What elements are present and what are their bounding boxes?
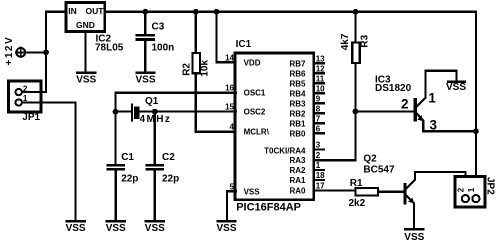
svg-text:RB1: RB1 xyxy=(289,119,306,128)
node R3/RA3/DS1820 junction xyxy=(353,109,359,115)
svg-text:2: 2 xyxy=(316,151,321,160)
ground VSS (regulator) xyxy=(76,73,96,86)
pin 17 RA0 xyxy=(289,182,325,196)
node rail/R3 junction xyxy=(353,9,359,15)
wire RA3 to R3/DS1820 node xyxy=(315,112,356,161)
node OSC1/crystal junction xyxy=(113,109,119,115)
connector JP2 xyxy=(455,177,485,208)
pin 11 RB5 xyxy=(289,74,324,88)
svg-text:4k7: 4k7 xyxy=(340,33,351,50)
svg-text:3: 3 xyxy=(316,141,321,150)
svg-text:4: 4 xyxy=(230,123,235,132)
pin 14 VDD xyxy=(225,53,261,67)
node rail/VDD junction xyxy=(214,9,220,15)
resistor R3 xyxy=(352,12,360,112)
wire regulator GND stub xyxy=(84,32,86,72)
svg-text:17: 17 xyxy=(316,182,325,191)
svg-text:2: 2 xyxy=(457,187,466,192)
pin 5 VSS xyxy=(230,182,261,196)
capacitor C1 xyxy=(108,165,124,220)
pin 9 RB3 xyxy=(289,94,323,108)
svg-text:RB0: RB0 xyxy=(289,129,306,138)
svg-text:VSS: VSS xyxy=(244,187,261,196)
svg-text:7: 7 xyxy=(316,114,321,123)
svg-text:R2: R2 xyxy=(181,63,192,76)
svg-text:RA2: RA2 xyxy=(289,166,306,175)
pin 4 MCLR xyxy=(230,123,270,137)
svg-text:18: 18 xyxy=(316,171,325,180)
svg-text:IC1: IC1 xyxy=(236,39,252,50)
node rail/R2 junction xyxy=(193,9,199,15)
wire DS1820 data xyxy=(356,110,414,112)
svg-text:5: 5 xyxy=(230,182,235,191)
ground VSS (C2) xyxy=(145,221,165,234)
svg-text:MCLR\: MCLR\ xyxy=(244,128,270,137)
svg-text:12: 12 xyxy=(316,64,325,73)
svg-text:8: 8 xyxy=(316,104,321,113)
node +12V junction xyxy=(43,50,49,56)
svg-text:1: 1 xyxy=(316,161,321,170)
wire OSC1 net xyxy=(116,93,237,164)
svg-text:6: 6 xyxy=(316,124,321,133)
svg-text:15: 15 xyxy=(225,103,234,112)
ground VSS (C3) xyxy=(135,73,155,86)
svg-text:R3: R3 xyxy=(359,34,370,47)
svg-text:2: 2 xyxy=(401,97,409,112)
svg-text:3: 3 xyxy=(430,118,438,133)
ground VSS (Q2) xyxy=(404,229,424,243)
svg-text:BC547: BC547 xyxy=(363,165,395,176)
wire +12V input to regulator IN xyxy=(46,11,65,13)
svg-text:OUT: OUT xyxy=(86,6,105,16)
wire JP1 pin 2 to +12V xyxy=(23,91,46,93)
wire +12V vertical to JP1 pin 2 xyxy=(45,12,47,92)
svg-text:PIC16F84AP: PIC16F84AP xyxy=(236,202,301,214)
capacitor C2 xyxy=(147,112,163,221)
svg-text:IN: IN xyxy=(68,6,77,16)
svg-text:GND: GND xyxy=(76,20,95,30)
svg-text:+12V: +12V xyxy=(4,36,15,66)
svg-text:22p: 22p xyxy=(162,173,179,184)
svg-text:11: 11 xyxy=(316,74,325,83)
svg-text:Q2: Q2 xyxy=(363,154,377,165)
node DS1820 pin3 / rail junction xyxy=(473,128,479,134)
svg-text:JP1: JP1 xyxy=(22,112,40,123)
svg-text:22p: 22p xyxy=(121,173,138,184)
wire JP1 pin 1 to ground xyxy=(23,103,76,221)
ground VSS (JP1) xyxy=(66,221,86,234)
power symbol +12V xyxy=(16,48,46,58)
svg-text:C2: C2 xyxy=(162,152,175,163)
svg-text:VSS: VSS xyxy=(145,223,165,234)
node rail/C3 junction xyxy=(142,9,148,15)
transistor Q2 BC547 xyxy=(405,172,465,228)
svg-text:16: 16 xyxy=(225,84,234,93)
node OSC2/C2 junction xyxy=(152,109,158,115)
pin 12 RB6 xyxy=(289,64,325,78)
pin 3 T0CKI/RA4 xyxy=(264,141,324,156)
svg-text:10: 10 xyxy=(316,84,325,93)
svg-text:RB6: RB6 xyxy=(289,69,306,78)
svg-text:RA3: RA3 xyxy=(289,156,306,165)
svg-text:C3: C3 xyxy=(152,22,165,33)
svg-text:VSS: VSS xyxy=(216,223,236,234)
resistor R2 xyxy=(192,12,236,132)
ground VSS (DS1820) xyxy=(446,82,466,93)
svg-text:100n: 100n xyxy=(152,42,175,53)
svg-text:Q1: Q1 xyxy=(145,96,159,107)
ground VSS (IC1) xyxy=(216,221,236,234)
svg-text:RB5: RB5 xyxy=(289,79,306,88)
svg-text:VSS: VSS xyxy=(66,223,86,234)
svg-text:VDD: VDD xyxy=(244,58,261,67)
pin 1 RA2 xyxy=(289,161,323,175)
svg-text:1: 1 xyxy=(428,90,436,105)
capacitor C3 xyxy=(137,12,154,72)
connector JP1 xyxy=(9,81,42,112)
op IC1 PIC16F84AP body xyxy=(235,53,314,200)
ground VSS (C1) xyxy=(106,221,126,234)
crystal Q1 xyxy=(116,104,237,120)
wire VDD xyxy=(216,12,236,63)
svg-text:78L05: 78L05 xyxy=(95,43,124,54)
svg-text:13: 13 xyxy=(316,54,325,63)
wire RA0 to R1 xyxy=(315,190,355,192)
svg-text:RB3: RB3 xyxy=(289,99,306,108)
wire 5V rail (regulator OUT to right edge, down to JP2 pin 1) xyxy=(105,12,476,195)
pin 7 RB1 xyxy=(289,114,323,128)
svg-text:10k: 10k xyxy=(200,60,211,77)
wire VSS pin 5 to ground xyxy=(227,191,236,220)
pin 18 RA1 xyxy=(289,171,325,185)
svg-text:VSS: VSS xyxy=(135,74,155,85)
svg-text:OSC1: OSC1 xyxy=(244,89,266,98)
pin 15 OSC2 xyxy=(225,103,266,117)
pin 6 RB0 xyxy=(289,124,323,138)
svg-text:9: 9 xyxy=(316,94,321,103)
svg-text:RB4: RB4 xyxy=(289,89,306,98)
svg-text:VSS: VSS xyxy=(404,232,424,243)
svg-text:R1: R1 xyxy=(350,178,363,189)
svg-text:RA0: RA0 xyxy=(289,187,306,196)
pin 16 OSC1 xyxy=(225,84,266,98)
svg-text:VSS: VSS xyxy=(76,74,96,85)
svg-text:OSC2: OSC2 xyxy=(244,108,266,117)
voltage regulator IC2 78L05 xyxy=(66,3,105,32)
svg-text:1: 1 xyxy=(467,187,476,192)
svg-text:VSS: VSS xyxy=(446,82,466,93)
svg-text:VSS: VSS xyxy=(106,223,126,234)
svg-text:RB7: RB7 xyxy=(289,59,306,68)
pin 10 RB4 xyxy=(289,84,325,98)
pin 8 RB2 xyxy=(289,104,323,118)
svg-text:DS1820: DS1820 xyxy=(375,83,412,94)
svg-text:RA1: RA1 xyxy=(289,176,306,185)
temperature sensor IC3 DS1820 xyxy=(415,71,476,131)
resistor R1 xyxy=(355,188,403,196)
svg-text:2k2: 2k2 xyxy=(349,198,366,209)
svg-text:RB2: RB2 xyxy=(289,109,306,118)
pin 13 RB7 xyxy=(289,54,325,68)
svg-text:JP2: JP2 xyxy=(485,177,496,195)
svg-text:14: 14 xyxy=(225,53,234,62)
svg-text:C1: C1 xyxy=(121,152,134,163)
svg-text:T0CKI/RA4: T0CKI/RA4 xyxy=(264,147,306,156)
pin 2 RA3 xyxy=(289,151,320,165)
